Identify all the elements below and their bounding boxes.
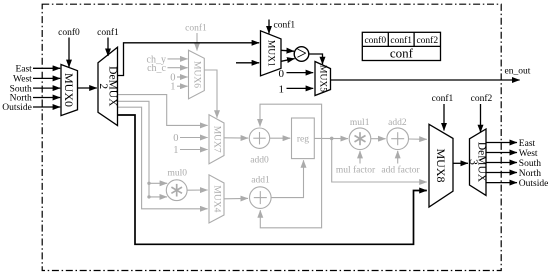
svg-text:add factor: add factor [381,164,420,175]
svg-text:0: 0 [279,68,285,80]
wire MUX8 output to DeMUX3 [453,162,468,164]
junction node mul0 in2 [147,195,150,198]
svg-text:conf: conf [390,46,414,61]
svg-text:conf1: conf1 [97,27,119,38]
wire DeMUX2 out5 bypass to MUX8 input3 [118,115,427,244]
svg-text:MUX1: MUX1 [266,40,276,67]
wire add2 to MUX8 input1 [409,138,427,140]
junction node after reg [330,137,334,141]
svg-text:reg: reg [297,134,309,144]
wire reg output to MUX8 input2 [332,138,427,182]
wire conf1 select to MUX1 [268,20,270,34]
wire Outside to MUX0 [33,106,60,108]
junction node mul0 in1 [147,182,150,185]
svg-text:MUX7: MUX7 [212,126,222,153]
svg-text:Outside: Outside [519,179,549,189]
wire MUX0 output to DeMUX2 [78,87,97,89]
wire MUX4 output to add1 [224,197,248,199]
svg-text:West: West [519,149,538,159]
conf table [362,32,440,60]
mux MUX5 [315,62,331,96]
wire 0 to MUX7 pin [180,137,208,139]
wire conf1 select to DeMUX2 [107,38,109,57]
wire MUX1 out A to comparator [281,49,294,52]
wire mul1 to add2 [371,138,386,140]
svg-text:North: North [10,94,32,104]
multiplier mul1 [349,118,371,150]
svg-text:2: 2 [97,83,109,89]
svg-text:MUX6: MUX6 [191,61,201,88]
adder add1 [249,176,271,209]
wire MUX5 output to en_out [331,79,520,81]
wire comparator to MUX5 select [309,54,323,64]
svg-text:mul0: mul0 [168,169,188,179]
demux DeMUX2 [97,47,118,125]
wire add0 to reg [270,137,291,139]
wire ch_c to MUX6 pin [168,67,188,69]
svg-text:mul1: mul1 [350,118,370,128]
adder add0 [249,128,269,166]
wire conf1 select to MUX8 [443,104,445,131]
svg-text:conf2: conf2 [416,35,438,46]
svg-text:mul factor: mul factor [336,164,376,175]
wire East to MUX0 [33,67,60,69]
demux DeMUX3 [467,129,488,195]
wire reg feedback to add1 bottom [260,138,321,227]
svg-text:conf1: conf1 [432,93,454,104]
svg-text:South: South [519,159,541,169]
svg-text:1: 1 [173,145,178,156]
svg-text:East: East [519,139,536,149]
wire DeMUX3 out Outside [486,182,517,184]
svg-text:1: 1 [170,82,175,93]
wire mul0 to MUX4 input1 [187,189,208,191]
svg-text:>: > [296,44,306,64]
GRAY SUBSYSTEM [118,23,427,228]
dash-dot module border [42,4,501,270]
svg-text:Outside: Outside [2,103,32,113]
wire conf0 select to MUX0 [68,38,70,68]
register reg [292,118,315,159]
wire reg feedback to add0 top [260,104,322,138]
wire MUX1 out B to comparator [281,59,295,62]
wire stub MUX1 input2 [236,62,259,64]
wire conf2 select to DeMUX3 [480,104,482,132]
svg-text:add0: add0 [250,156,269,166]
wire 1 to MUX5 [287,87,314,89]
wire DeMUX2 out2 to MUX7 input1 [118,95,208,126]
mux MUX0 [61,65,78,116]
svg-text:MUX4: MUX4 [212,185,222,212]
wire add1 to reg bottom [271,160,303,197]
svg-text:conf2: conf2 [471,93,493,104]
wire West to MUX0 [33,77,60,79]
wire South to MUX0 [33,87,60,89]
wire DeMUX2 out3 to mul0 both inputs [118,101,168,197]
wire select conf1 to MUX6 [196,33,198,51]
wire ch_y to MUX6 pin [168,58,188,60]
svg-text:MUX0: MUX0 [62,73,76,107]
wire DeMUX3 out West [486,152,517,154]
wire DeMUX3 out South [486,162,517,164]
svg-text:conf0: conf0 [364,35,386,46]
wire branch to mul0 input1 [149,182,167,184]
wire reg output to mul1 [314,137,348,139]
mux MUX4 [209,175,224,223]
wire MUX6 output to MUX7 select [204,70,217,118]
svg-text:add2: add2 [388,118,407,128]
svg-text:conf1: conf1 [390,35,412,46]
wire 0 to MUX6 pin [177,76,188,78]
svg-text:West: West [13,75,32,85]
adder add2 [387,118,409,150]
svg-text:North: North [519,169,541,179]
svg-text:East: East [15,65,32,75]
multiplier mul0 [166,169,187,201]
svg-text:MUX8: MUX8 [434,148,448,182]
svg-text:conf0: conf0 [58,27,80,38]
wire DeMUX3 out North [486,172,517,174]
wire 1 to MUX7 pin [180,149,208,151]
wire DeMUX3 out East [486,142,517,144]
svg-text:MUX5: MUX5 [318,65,328,92]
mux MUX8 [429,124,453,207]
svg-text:add1: add1 [251,176,270,186]
svg-text:en_out: en_out [505,67,531,77]
svg-text:1: 1 [279,84,285,96]
wire add factor to add2 [397,151,399,164]
wire mul factor to mul1 [359,151,361,164]
wire DeMUX2 out4 to MUX4 input2 [118,107,208,209]
svg-text:conf1: conf1 [274,20,296,31]
svg-text:3: 3 [467,159,479,165]
wire 1 to MUX6 pin [177,85,188,87]
mux MUX6 [189,50,205,99]
wire MUX7 output to add0 [224,137,248,139]
comparator U1 [294,44,309,64]
wire 0 to MUX5 [287,72,314,74]
wire DeMUX2 out1 to MUX1 input1 [118,43,260,76]
svg-text:ch_c: ch_c [147,63,166,74]
mux MUX7 [209,115,224,164]
svg-text:0: 0 [173,133,178,144]
mux MUX1 [261,31,282,76]
svg-text:conf1: conf1 [185,23,207,34]
wire North to MUX0 [33,97,60,99]
